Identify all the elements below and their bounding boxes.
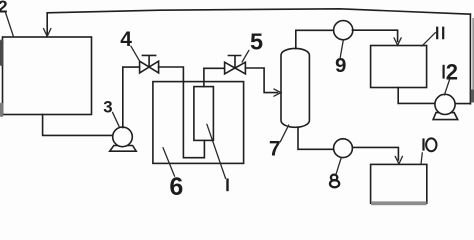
leader for 6 [163,148,175,177]
leader for 5 [242,50,249,62]
svg-text:7: 7 [269,138,281,161]
svg-text:3: 3 [103,98,112,117]
svg-text:4: 4 [120,28,132,51]
circle 9 [334,21,353,40]
scan artifact right edge blob [471,90,474,103]
leader for 2 [6,13,14,38]
tank 2 [3,37,92,115]
label 12 [444,60,458,85]
wire column 7 top to circle 9 [296,30,334,48]
wire tank 2 outlet to pump 3 [43,115,114,136]
wire drop into tank 2 [46,13,48,36]
box 11 [371,46,427,88]
pump 3 [113,127,133,147]
leader for 1 [207,124,226,178]
wire column 7 bottom to circle 8 [298,127,334,149]
leader for 4 [131,46,140,61]
label 8 [330,175,339,188]
valve V5 [225,56,246,74]
label 10 [424,138,437,151]
wire circle 8 to box 10 [352,147,398,160]
column 7 [281,48,309,127]
valve V4 [140,55,159,73]
wire valve 4 to reactor U-tube [159,67,205,158]
svg-text:5: 5 [250,29,263,55]
leader for 12 [444,80,449,95]
label 11 [437,27,443,40]
arrowhead into tank 2 [44,29,51,37]
leader for 10 [421,153,422,165]
leader for 9 [340,40,343,58]
scan artifact left edge blob lower [0,103,3,118]
scan artifact left edge blob upper [0,40,3,67]
wire valve 5 to column 7 [245,68,277,93]
pump 3 foot [110,146,137,152]
svg-text:6: 6 [169,173,183,201]
wire right riser [469,14,471,104]
wire circle 9 to box 11 [352,30,397,41]
enclosure box 6 [153,82,244,164]
vessel 1 [194,87,214,141]
arrowhead into box 11 [394,38,401,45]
pump 12 [435,94,455,114]
wire pump 3 to valve 4 [123,67,140,128]
pump 12 foot [433,113,458,120]
wire pump12 to right riser [455,103,470,105]
wire vessel 1 to valve 5 [204,68,225,86]
wire box 11 to pump 12 [398,88,435,104]
leader for 8 [336,158,341,175]
box 10 [371,164,427,203]
label 1 [226,179,228,192]
leader for 7 [280,125,288,142]
wire top recycle run [47,9,470,14]
scan artifact box 10 bottom smudge [371,201,427,205]
scan artifact right edge strip [472,18,474,102]
svg-text:2: 2 [446,60,458,85]
arrowhead into box 10 [395,156,402,164]
circle 8 [334,139,353,158]
arrowhead into column 7 [274,89,281,96]
leader for 11 [422,33,436,47]
leader for 3 [113,112,120,127]
